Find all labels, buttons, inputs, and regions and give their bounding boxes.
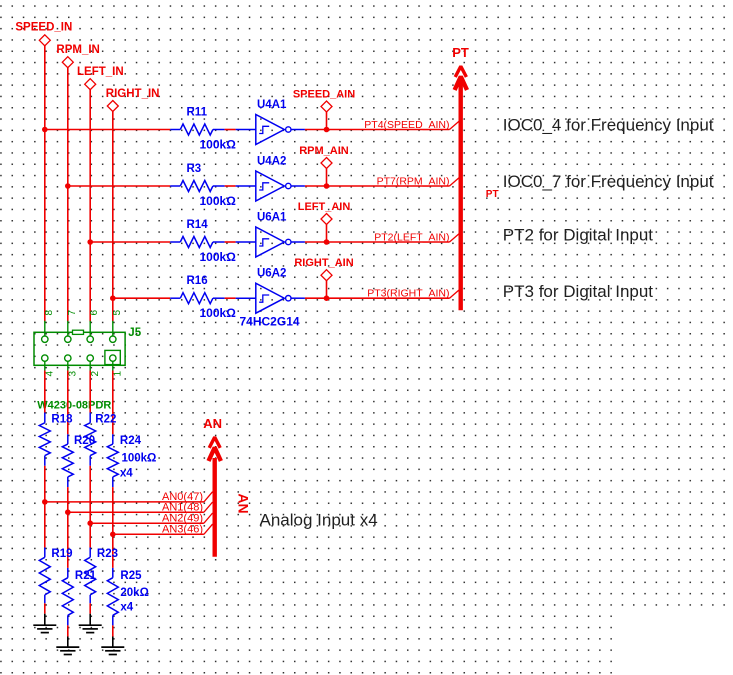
input connector flag RPM_IN: [56, 44, 99, 68]
output connector flag SPEED_AIN: [293, 89, 355, 113]
bus entry slash row 3: [450, 234, 460, 242]
resistor R21 20kΩ: [62, 568, 73, 626]
resistor R23 20kΩ: [85, 548, 96, 604]
wire resistor R11 to gate U4A1: [225, 129, 236, 131]
bus entry slash row 1: [450, 121, 460, 129]
junction node RPM_AIN: [324, 183, 330, 189]
connector J5 bottom pin 2: [87, 355, 101, 377]
svg-text:100kΩ: 100kΩ: [200, 250, 237, 264]
svg-text:R20: R20: [74, 435, 95, 447]
bus entry slash AN2(49): [204, 513, 213, 523]
svg-text:PT2(LEFT_AIN): PT2(LEFT_AIN): [374, 231, 449, 243]
svg-text:AN3(46): AN3(46): [162, 524, 203, 536]
bus entry slash row 2: [450, 178, 460, 186]
svg-text:R11: R11: [187, 107, 208, 119]
svg-text:100kΩ: 100kΩ: [200, 138, 237, 152]
svg-text:RPM_IN: RPM_IN: [56, 44, 99, 56]
svg-text:U6A1: U6A1: [257, 212, 287, 224]
svg-text:PT: PT: [486, 189, 499, 200]
svg-text:R23: R23: [97, 548, 118, 560]
input connector flag LEFT_IN: [77, 66, 124, 90]
ground symbol col 4: [101, 637, 124, 655]
output connector flag RPM_AIN: [299, 145, 349, 169]
svg-text:PT3(RIGHT_AIN): PT3(RIGHT_AIN): [367, 288, 449, 300]
schmitt inverter gate U6A2: [236, 268, 305, 314]
junction node AN0: [42, 499, 48, 505]
wire net SPEED_IN vertical from flag to J5 pin: [44, 46, 46, 322]
svg-text:4: 4: [44, 371, 55, 377]
junction node LEFT_IN / row 3: [87, 239, 93, 245]
connector J5 bottom pin 3: [65, 355, 79, 377]
junction node LEFT_AIN: [324, 239, 330, 245]
wire gate U4A1 output to PT bus: [305, 129, 450, 131]
bus entry slash AN0(47): [204, 492, 213, 502]
output connector flag RIGHT_AIN: [294, 257, 353, 281]
bus entry slash AN1(48): [204, 502, 213, 512]
svg-text:7: 7: [67, 310, 78, 316]
wire row 3 input to resistor R14: [90, 241, 170, 243]
resistor R25 20kΩ: [107, 568, 118, 626]
wire R24 to R25 with AN tap: [112, 487, 114, 568]
wire net AN3(46) to AN bus: [113, 533, 204, 535]
svg-text:x4: x4: [120, 601, 133, 613]
junction node SPEED_IN / row 1: [42, 127, 48, 133]
wire gate U6A2 output to PT bus: [305, 297, 450, 299]
ground symbol col 3: [79, 614, 102, 633]
resistor R19 20kΩ: [39, 548, 50, 604]
svg-text:U4A2: U4A2: [257, 156, 286, 168]
svg-text:R14: R14: [187, 219, 209, 231]
schmitt inverter gate U6A1: [236, 212, 305, 258]
connector J5 top pin 5: [110, 310, 123, 343]
svg-text:R21: R21: [75, 570, 97, 582]
wire stub to flag RIGHT_AIN: [326, 281, 328, 299]
wire R20 to R21 with AN tap: [67, 487, 69, 568]
wire R22 to R23 with AN tap: [89, 466, 91, 548]
junction node AN3: [110, 532, 116, 538]
wire J5 pin 1 to resistor R24: [112, 371, 114, 435]
svg-text:6: 6: [89, 310, 100, 316]
wire J5 pin 3 to resistor R20: [67, 371, 69, 435]
svg-text:R25: R25: [120, 570, 142, 582]
svg-text:Analog Input x4: Analog Input x4: [260, 511, 378, 530]
bus entry slash row 4: [450, 290, 460, 298]
connector J5 bottom pin 1: [110, 355, 124, 377]
wire net RPM_IN vertical from flag to J5 pin: [67, 68, 69, 322]
svg-text:LEFT_AIN: LEFT_AIN: [298, 201, 351, 213]
svg-text:RIGHT_AIN: RIGHT_AIN: [294, 257, 353, 269]
svg-text:SPEED_IN: SPEED_IN: [15, 22, 72, 34]
svg-text:LEFT_IN: LEFT_IN: [77, 66, 124, 78]
wire net AN0(47) to AN bus: [45, 501, 204, 503]
svg-text:U6A2: U6A2: [257, 268, 286, 280]
connector J5 top pin 6: [87, 310, 100, 343]
svg-text:R22: R22: [95, 414, 116, 426]
svg-text:R3: R3: [187, 163, 202, 175]
wire row 2 input to resistor R3: [68, 185, 170, 187]
wire J5 pin 4 to resistor R18: [44, 371, 46, 413]
svg-text:PT3 for Digital Input: PT3 for Digital Input: [503, 282, 654, 301]
svg-text:x4: x4: [120, 468, 133, 480]
svg-text:SPEED_AIN: SPEED_AIN: [293, 89, 355, 101]
svg-text:R24: R24: [120, 435, 142, 447]
svg-text:W4230-08PDR: W4230-08PDR: [37, 399, 111, 411]
svg-text:J5: J5: [128, 327, 141, 339]
wire net RIGHT_IN vertical from flag to J5 pin: [112, 112, 114, 322]
wire stub to flag RPM_AIN: [326, 169, 328, 187]
schmitt inverter gate U4A2: [236, 156, 305, 202]
wire gate U4A2 output to PT bus: [305, 185, 450, 187]
wire R21 to ground: [67, 625, 69, 636]
svg-text:IOC0_7 for Frequency Input: IOC0_7 for Frequency Input: [503, 172, 714, 191]
connector J5 pin 1 square marker: [105, 350, 120, 364]
junction node RPM_IN / row 2: [65, 183, 71, 189]
svg-text:PT4(SPEED_AIN): PT4(SPEED_AIN): [364, 119, 449, 131]
wire net AN2(49) to AN bus: [90, 522, 204, 524]
wire net AN1(48) to AN bus: [68, 511, 204, 513]
wire J5 pin 2 to resistor R22: [89, 371, 91, 413]
svg-text:3: 3: [67, 371, 78, 377]
connector J5 top pin 8: [42, 310, 55, 343]
svg-text:100kΩ: 100kΩ: [122, 453, 157, 465]
svg-text:PT2 for Digital Input: PT2 for Digital Input: [503, 226, 654, 245]
output connector flag LEFT_AIN: [298, 201, 351, 225]
svg-text:100kΩ: 100kΩ: [200, 306, 237, 320]
junction node AN1: [65, 509, 71, 515]
svg-text:2: 2: [90, 371, 101, 377]
wire resistor R14 to gate U6A1: [225, 241, 236, 243]
svg-text:U4A1: U4A1: [257, 99, 287, 111]
junction node RIGHT_IN / row 4: [110, 295, 116, 301]
svg-text:20kΩ: 20kΩ: [120, 587, 148, 599]
svg-text:8: 8: [44, 310, 55, 316]
svg-text:AN: AN: [236, 493, 252, 513]
resistor R22 100kΩ: [85, 413, 96, 466]
svg-text:AN: AN: [203, 416, 222, 431]
wire stub to flag SPEED_AIN: [326, 112, 328, 130]
resistor R20 100kΩ: [62, 434, 73, 487]
svg-text:RPM_AIN: RPM_AIN: [299, 145, 349, 157]
svg-text:100kΩ: 100kΩ: [200, 194, 237, 208]
resistor R24 100kΩ: [107, 434, 118, 487]
wire R19 to ground: [44, 603, 46, 613]
wire stub to flag LEFT_AIN: [326, 225, 328, 243]
wire row 4 input to resistor R16: [113, 297, 170, 299]
svg-text:74HC2G14: 74HC2G14: [240, 314, 300, 328]
svg-text:IOC0_4 for Frequency Input: IOC0_4 for Frequency Input: [503, 116, 714, 135]
svg-text:5: 5: [112, 310, 123, 316]
ground symbol col 2: [56, 637, 79, 655]
junction node AN2: [87, 520, 93, 526]
svg-text:RIGHT_IN: RIGHT_IN: [106, 88, 160, 100]
wire resistor R16 to gate U6A2: [225, 297, 236, 299]
svg-text:PT7(RPM_AIN): PT7(RPM_AIN): [377, 175, 450, 187]
svg-text:R16: R16: [187, 275, 208, 287]
schmitt inverter gate U4A1: [236, 99, 305, 145]
svg-text:1: 1: [112, 371, 123, 377]
resistor R14 100kΩ: [170, 219, 236, 264]
wire R18 to R19 with AN tap: [44, 466, 46, 548]
wire R25 to ground: [112, 625, 114, 636]
wire resistor R3 to gate U4A2: [225, 185, 236, 187]
bus arrow PT: [455, 66, 467, 310]
junction node RIGHT_AIN: [324, 295, 330, 301]
svg-text:PT: PT: [452, 45, 469, 60]
connector J5 top pin 7: [65, 310, 78, 343]
resistor R18 100kΩ: [39, 413, 50, 466]
bus arrow AN: [209, 437, 221, 557]
ground symbol col 1: [33, 614, 56, 633]
input connector flag SPEED_IN: [15, 22, 72, 46]
resistor R11 100kΩ: [170, 107, 236, 152]
input connector flag RIGHT_IN: [106, 88, 160, 112]
svg-text:R18: R18: [51, 414, 73, 426]
wire net LEFT_IN vertical from flag to J5 pin: [89, 90, 91, 322]
bus entry slash AN3(46): [204, 524, 213, 534]
wire gate U6A1 output to PT bus: [305, 241, 450, 243]
connector J5 bottom pin 4: [42, 355, 56, 377]
connector J5 body: [34, 330, 125, 365]
resistor R16 100kΩ: [170, 275, 236, 320]
wire R23 to ground: [89, 603, 91, 613]
resistor R3 100kΩ: [170, 163, 236, 208]
junction node SPEED_AIN: [324, 127, 330, 133]
wire row 1 input to resistor R11: [45, 129, 170, 131]
svg-text:R19: R19: [51, 548, 72, 560]
